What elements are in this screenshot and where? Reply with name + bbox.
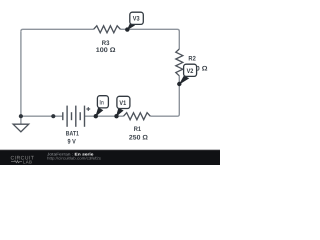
wire top horizontal (left corner to R3) [21, 29, 94, 31]
wire bottom (ground junction to battery) [21, 115, 63, 117]
battery BAT1 plate short 1 (negative end) [62, 112, 64, 120]
wire left vertical + ground stub [20, 31, 22, 124]
svg-text:100 Ω: 100 Ω [96, 47, 116, 54]
CircuitLab logo second row squiggle [11, 161, 22, 163]
resistor R1 (horizontal, bottom) [124, 113, 151, 120]
probe V2 box [184, 64, 197, 76]
svg-text:In: In [100, 100, 104, 107]
svg-text:250 Ω: 250 Ω [129, 134, 149, 141]
node flag In dot [94, 114, 98, 118]
svg-text:V3: V3 [133, 16, 140, 23]
probe V2 pointer [179, 76, 190, 85]
svg-text:JotaFerran : En serie: JotaFerran : En serie [47, 151, 95, 156]
svg-text:V2: V2 [187, 68, 194, 75]
svg-text:http://circuitlab.com/c3fef2s: http://circuitlab.com/c3fef2s [47, 157, 101, 161]
resistor R2 (vertical, right) [176, 49, 183, 76]
node flag In pointer [95, 107, 103, 117]
battery BAT1 plate short 2 [71, 112, 73, 120]
battery BAT1 plate tall 2 [75, 106, 77, 127]
node flag In box [97, 96, 108, 108]
battery BAT1 plate tall 1 [66, 106, 68, 127]
svg-text:9 V: 9 V [68, 138, 77, 145]
battery plus sign [86, 107, 90, 111]
probe V3 box [130, 12, 144, 24]
svg-text:R2: R2 [188, 56, 196, 63]
svg-text:BAT1: BAT1 [66, 131, 79, 138]
footer bar soft top edge [0, 149, 220, 150]
probe V1 dot [114, 114, 118, 118]
svg-text:V1: V1 [119, 100, 126, 107]
svg-text:R3: R3 [102, 40, 110, 47]
ground symbol triangle [13, 124, 29, 132]
wire junction dot (node between ground and battery) [51, 114, 55, 118]
probe V3 dot [125, 27, 129, 31]
battery BAT1 plate tall 3 (positive end) [84, 106, 86, 127]
footer bar [0, 150, 220, 165]
probe V1 pointer [116, 108, 124, 117]
probe V2 dot [177, 82, 181, 86]
probe V1 box [117, 96, 130, 108]
probe V3 pointer [127, 22, 135, 30]
wire bottom (battery to R1) [85, 115, 124, 117]
battery BAT1 plate short 3 [79, 112, 81, 120]
svg-text:R1: R1 [134, 126, 142, 133]
wire top horizontal (R3 to right corner) [120, 29, 179, 49]
ground junction dot [19, 114, 23, 118]
wire right vertical (R2 bottom to bottom corner) [150, 76, 179, 116]
resistor R3 (horizontal, top) [94, 26, 121, 33]
svg-text:LAB: LAB [23, 159, 32, 164]
